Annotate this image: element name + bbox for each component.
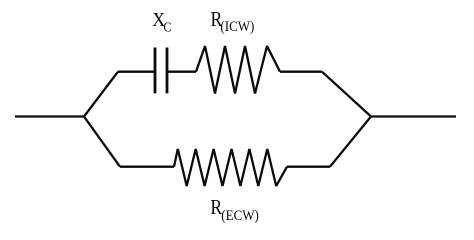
svg-text:(ICW): (ICW) (220, 19, 254, 35)
svg-text:(ECW): (ECW) (221, 208, 259, 224)
svg-text:C: C (163, 21, 171, 36)
